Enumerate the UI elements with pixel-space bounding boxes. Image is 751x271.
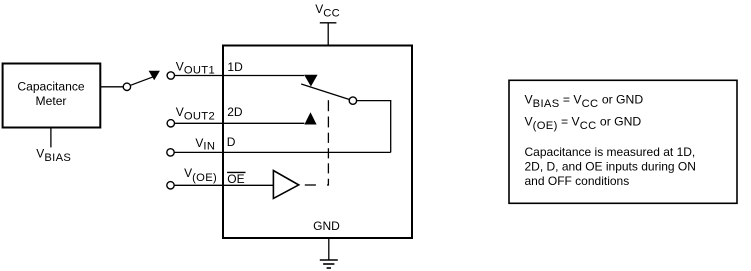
- svg-text:VOUT2: VOUT2: [176, 105, 215, 123]
- wire: meter to switch pole: [101, 86, 124, 88]
- terminal V_IN: [167, 149, 174, 156]
- switch throw arrow on 1D (filled down triangle): [304, 75, 318, 87]
- terminal V_OUT2: [167, 120, 174, 127]
- switch blade (left switch): [131, 77, 154, 86]
- svg-text:Capacitance is measured at 1D,: Capacitance is measured at 1D,: [525, 145, 696, 159]
- note paragraph: [525, 145, 696, 188]
- wire: OE input: [174, 184, 273, 186]
- svg-text:V(OE) = VCC or GND: V(OE) = VCC or GND: [525, 115, 642, 132]
- wire: GND stem: [328, 238, 330, 260]
- svg-text:VIN: VIN: [195, 136, 215, 153]
- switch pole circle: [123, 83, 130, 90]
- wire: V_CC stem: [327, 23, 329, 46]
- svg-text:D: D: [227, 135, 236, 149]
- buffer U1 (OE control triangle): [273, 171, 298, 199]
- svg-text:VCC: VCC: [315, 2, 340, 19]
- terminal V_(OE): [167, 182, 174, 189]
- wire: V_BIAS stem: [50, 129, 52, 148]
- svg-text:Meter: Meter: [36, 94, 67, 108]
- svg-text:and OFF conditions: and OFF conditions: [525, 174, 630, 188]
- pin label OE (with overbar): [227, 172, 245, 186]
- wire: 1D input: [175, 75, 305, 77]
- switch blade (inside DUT): [301, 84, 349, 100]
- switch wiper circle (inside DUT): [349, 97, 356, 104]
- V_CC T-bar: [320, 22, 337, 24]
- svg-text:VOUT1: VOUT1: [176, 59, 215, 76]
- switch throw arrow on 2D (filled up triangle): [304, 112, 316, 124]
- wire: D input: [174, 151, 391, 153]
- svg-text:Capacitance: Capacitance: [17, 80, 85, 94]
- DUT box: [223, 46, 412, 239]
- ground symbol: [320, 260, 338, 268]
- svg-text:OE: OE: [227, 172, 244, 186]
- svg-text:2D, D, and OE inputs during ON: 2D, D, and OE inputs during ON: [525, 160, 696, 174]
- svg-text:1D: 1D: [227, 60, 243, 74]
- svg-text:VBIAS = VCC or GND: VBIAS = VCC or GND: [525, 93, 644, 110]
- switch arrow (filled triangle, left switch): [149, 71, 160, 81]
- terminal V_OUT1: [167, 72, 174, 79]
- svg-text:GND: GND: [313, 219, 340, 233]
- dashed control line: buffer output to switch: [305, 100, 329, 185]
- svg-text:VBIAS: VBIAS: [36, 147, 71, 165]
- note box: [509, 80, 737, 203]
- wire: 2D input: [175, 122, 305, 124]
- wire: wiper to D net: [357, 101, 391, 153]
- svg-text:2D: 2D: [227, 105, 243, 119]
- capacitance meter box: [3, 64, 101, 128]
- svg-text:V(OE): V(OE): [184, 166, 217, 184]
